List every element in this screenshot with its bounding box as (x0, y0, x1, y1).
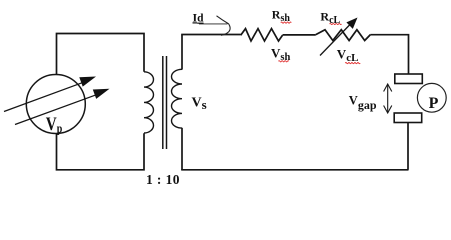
resistor Rsh (241, 29, 283, 41)
wire: left loop top (57, 34, 145, 75)
pressure gauge P circle (417, 83, 446, 112)
squiggle under Rsh (281, 22, 292, 23)
current arrow Id (199, 23, 228, 25)
transformer core (162, 56, 164, 149)
RcL wiper arrowhead (346, 18, 357, 29)
source V_p circle (26, 75, 85, 134)
svg-text:Vs: Vs (192, 96, 207, 112)
svg-text:Id: Id (193, 10, 205, 24)
wire: left loop bottom (57, 133, 145, 170)
RcL wiper arrow line (320, 25, 350, 56)
wire: below bottom plate (181, 123, 408, 170)
label Vp (46, 113, 63, 136)
squiggle under Vsh (278, 61, 289, 62)
wire: secondary left vertical (181, 35, 183, 70)
wire: top segment to Rsh (181, 34, 241, 36)
V_p arrow line 2 (15, 95, 97, 125)
wire: between resistors (283, 34, 316, 36)
V_p arrowhead 1 (79, 77, 96, 87)
transformer primary coil (144, 72, 153, 133)
transformer secondary coil (172, 69, 183, 128)
wire: top right segment and right vertical (370, 35, 408, 74)
squiggle under VcL (345, 62, 360, 63)
squiggle under RcL (330, 23, 342, 24)
electrode plate top (395, 74, 423, 84)
V_p arrowhead 2 (93, 89, 110, 99)
variable resistor RcL (316, 30, 371, 41)
Vgap double arrow (384, 84, 392, 113)
V_p arrow line 1 (4, 82, 85, 112)
svg-text:P: P (429, 95, 439, 112)
electrode plate bottom (394, 113, 422, 123)
svg-text:1 : 10: 1 : 10 (146, 172, 180, 187)
